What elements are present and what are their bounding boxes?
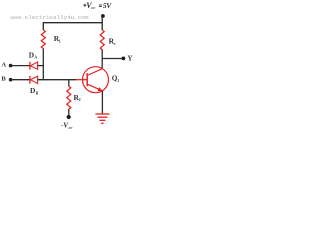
circle bbox=[83, 67, 109, 93]
svg-text:cc: cc bbox=[69, 125, 73, 130]
svg-text:2: 2 bbox=[79, 97, 81, 102]
ground bbox=[95, 114, 109, 123]
node A (terminal dot) bbox=[9, 64, 13, 68]
svg-text:1: 1 bbox=[59, 38, 61, 43]
wire: RC to collector node bbox=[101, 50, 103, 70]
resistor R1 bbox=[41, 30, 45, 49]
svg-text:A: A bbox=[1, 62, 6, 69]
wire: B to diode DB bbox=[11, 79, 30, 81]
wire: DA to junction bbox=[38, 65, 44, 67]
wire: R2 to -Vcc terminal bbox=[68, 109, 70, 115]
emitter arrowhead bbox=[98, 87, 103, 91]
svg-text:1: 1 bbox=[117, 79, 119, 83]
supply label +Vcc = 5V bbox=[83, 1, 112, 10]
emitter stroke bbox=[87, 84, 102, 91]
node Y (output dot) bbox=[122, 57, 126, 61]
svg-text:www.electrically4u.com: www.electrically4u.com bbox=[11, 14, 89, 21]
svg-text:A: A bbox=[34, 56, 37, 60]
node B (terminal dot) bbox=[9, 78, 13, 82]
collector stroke bbox=[87, 69, 102, 76]
wire: collector node to output Y bbox=[102, 58, 122, 60]
base bar bbox=[86, 73, 88, 86]
wire: R1 bottom to diode junction column bbox=[42, 49, 44, 80]
svg-text:D: D bbox=[29, 50, 34, 59]
svg-text:c: c bbox=[114, 41, 116, 46]
wire: R2 tap down bbox=[68, 80, 70, 87]
diode DB bbox=[30, 76, 38, 84]
diode DA bbox=[30, 62, 38, 70]
resistor R2 bbox=[67, 86, 71, 110]
wire: base wire from junction to transistor bbox=[38, 79, 77, 81]
svg-text:Y: Y bbox=[127, 55, 133, 63]
svg-text:B: B bbox=[36, 91, 39, 95]
base lead (red part) bbox=[76, 79, 86, 81]
svg-text:B: B bbox=[1, 76, 6, 83]
wire: emitter to ground bbox=[101, 91, 103, 114]
svg-text:cc: cc bbox=[91, 5, 95, 10]
resistor RC bbox=[100, 30, 104, 50]
transistor Q1 bbox=[76, 67, 109, 93]
wire: Vcc stub and top rail bbox=[43, 16, 103, 30]
svg-text:5V: 5V bbox=[103, 1, 112, 10]
svg-text:D: D bbox=[30, 86, 35, 95]
node Vcc (supply dot) bbox=[101, 14, 105, 18]
label -Vcc bbox=[61, 121, 73, 130]
wire: A to diode DA bbox=[11, 65, 30, 67]
node -Vcc (terminal dot) bbox=[67, 115, 71, 119]
